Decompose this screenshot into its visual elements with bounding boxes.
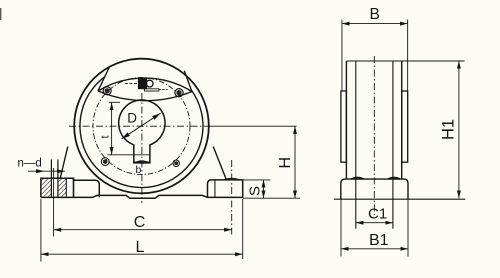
grease zerk body [138,79,147,89]
L dimension line [41,253,243,255]
cap edge right [184,71,192,92]
side view centerline [373,56,375,215]
left lug hole wall left [50,160,52,197]
b dimension arrows [134,161,139,163]
inner line right [392,61,394,229]
flange bar left [341,91,347,162]
svg-text:S: S [247,186,264,196]
B extension left [341,20,343,92]
t top tick [109,101,120,103]
screw bottom-right [173,160,179,166]
base lip right [388,178,400,180]
outer circle (housing) [74,59,209,194]
C1 dimension line [356,222,393,224]
housing-to-base diagonal right [213,147,226,180]
H1 dimension line [458,61,460,198]
B1 extension left [340,199,342,256]
svg-text:C: C [134,214,146,231]
D diameter arrow [122,113,161,139]
left lug hole wall right [57,160,59,197]
B1 dimension line [341,248,408,250]
svg-text:b: b [136,164,142,176]
S extension line [243,179,271,181]
inner line left [355,61,357,229]
H dimension line [294,126,296,198]
L extension right [242,199,244,259]
vertical centerline front view [141,93,143,203]
bore circle with keyway [119,100,165,163]
n-d mid arrow [36,169,45,173]
svg-text:n—d: n—d [18,158,42,170]
housing right edge [401,61,403,179]
ground line [334,198,465,200]
zerk leader right (dotted) [159,89,168,91]
C extension left (hole centerline) [53,168,55,237]
B extension right [407,20,409,92]
left lug boss edge [73,178,75,197]
C dimension line [54,229,232,231]
base lip left [351,178,363,180]
B1 extension right [407,199,409,256]
zerk leader left (dashed) [125,83,138,85]
horizontal centerline front view [69,125,210,127]
scan artifact left edge [0,8,1,20]
right lug lip [224,178,240,180]
cap screw top-left [103,87,111,95]
flange bar right [402,91,408,162]
svg-text:t: t [100,135,112,138]
base bottom profile [41,195,243,198]
svg-text:H1: H1 [440,119,458,140]
S dimension line [263,180,265,198]
right lug inner step [214,180,216,198]
cap edge left [98,67,109,91]
base block [341,179,408,199]
housing-to-base diagonal left [60,147,68,179]
svg-text:B: B [370,6,380,23]
B dimension line [342,23,408,25]
svg-text:D: D [127,110,137,125]
left lug hatch band 1 [42,179,52,197]
svg-text:H: H [277,157,294,169]
bolt circle (dash-dot) [93,78,190,175]
housing left edge [345,61,347,179]
zerk bar [145,89,159,91]
L extension left [40,199,42,262]
n-d leader [28,170,65,172]
left lug inner boundary [65,179,67,197]
right lug centerline [231,160,233,236]
cap lower lens arc [98,91,192,101]
left lug hatch band 2 [58,179,66,197]
t dimension line [111,103,113,155]
cap upper lens arc [98,78,192,91]
zerk head circle [146,80,153,87]
cap screw top-right [175,89,183,97]
left lug outline [41,178,99,197]
svg-text:B1: B1 [369,232,389,249]
screw bottom-left [101,158,109,166]
housing top line + H1 extension [346,60,464,62]
svg-text:L: L [136,239,145,256]
svg-text:C1: C1 [368,206,387,223]
H extension from center [210,125,297,127]
ground extension line right of base [243,197,300,199]
right lug outline [208,180,243,198]
rim circle arc [80,77,203,188]
keyway seat line [107,154,150,156]
